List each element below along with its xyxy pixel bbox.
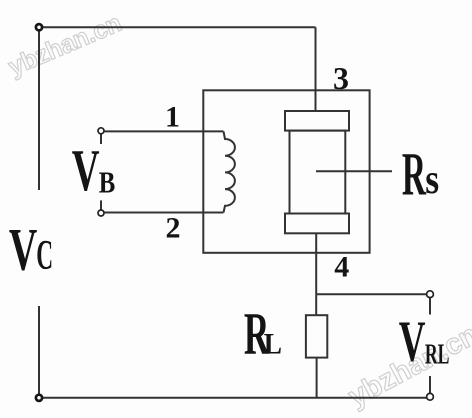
reed switch Rs bottom cap [285,214,349,234]
wire RL bottom to bottom rail [316,358,318,398]
resistor RL body [306,315,327,357]
stub below VRL top terminal [429,298,431,315]
label VC [9,216,53,282]
wire top: from left terminal to right drop [39,26,316,28]
wire branch node down to RL [315,294,317,315]
svg-text:RL: RL [425,339,450,370]
wire left upper segment [38,27,40,190]
stub above VRL bottom terminal [429,376,431,393]
label RL [244,300,282,367]
terminal 1 [98,128,104,134]
svg-text:2: 2 [166,211,181,244]
wire bottom: from left terminal to VRL bottom terminal [39,397,427,399]
stub above terminal 2 [100,200,102,210]
wire right drop down to Rs top cap [315,27,317,111]
coil L1 [224,131,235,212]
svg-text:R: R [402,140,426,208]
Rs pointer line [316,170,392,172]
wire left lower segment [38,306,40,398]
svg-text:L: L [264,327,282,360]
label VB [72,138,116,203]
stub below terminal 1 [100,134,102,144]
svg-text:V: V [399,309,426,373]
wire to pin 1 of coil [101,130,224,132]
svg-text:C: C [36,233,53,279]
label Rs [402,140,439,208]
svg-text:3: 3 [333,60,349,96]
label VRL [399,309,450,373]
svg-text:V: V [72,138,100,203]
terminal VRL bottom [427,393,434,400]
relay box outline [203,90,369,253]
svg-text:4: 4 [334,250,349,283]
wire branch to VRL top terminal [316,293,426,295]
wire Rs bottom to branch node [315,233,317,294]
svg-text:V: V [9,216,38,282]
terminal 2 [98,210,104,216]
reed switch Rs body [290,131,346,214]
svg-text:s: s [425,156,439,202]
reed switch Rs top cap [285,111,349,131]
svg-text:1: 1 [165,101,180,134]
wire to pin 2 of coil [101,212,224,214]
terminal top-left [36,24,42,30]
svg-text:B: B [99,166,116,200]
terminal VRL top [427,291,434,298]
terminal bottom-left [36,395,42,401]
